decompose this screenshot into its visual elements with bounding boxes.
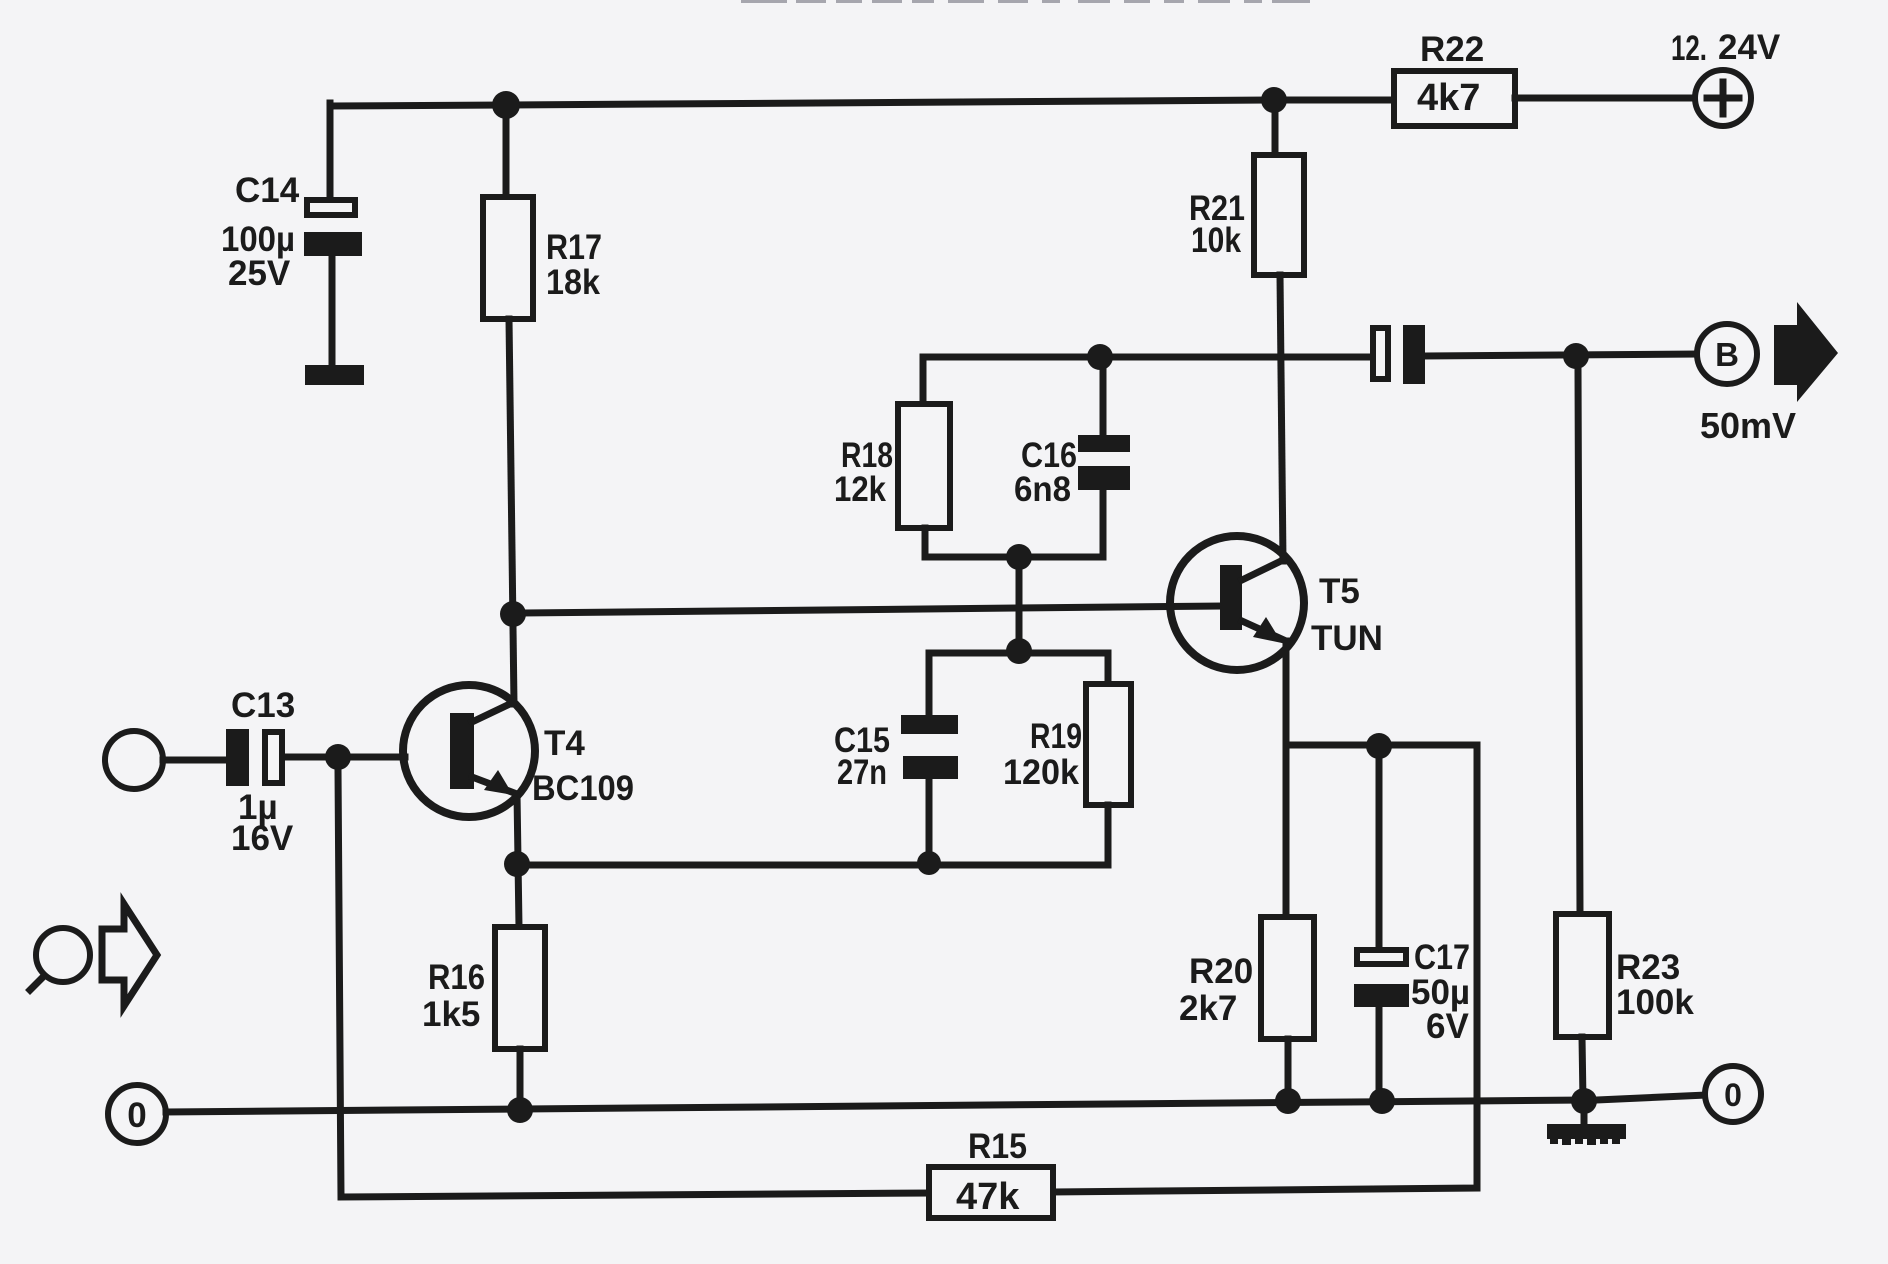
input terminal (circle) bbox=[105, 731, 163, 789]
resistor R18 bbox=[834, 404, 950, 528]
transistor T4 bbox=[403, 685, 634, 817]
wire top supply rail from C14 corner to R22 bbox=[330, 100, 1394, 106]
wire cap to terminal B bbox=[1425, 354, 1697, 356]
svg-text:R22: R22 bbox=[1420, 30, 1484, 69]
wire rail to terminal 0 right bbox=[1597, 1095, 1706, 1100]
node C17 branch junction bbox=[1366, 733, 1392, 759]
wire R17 bottom to T4 collector bbox=[509, 319, 514, 704]
node C17/rail junction bbox=[1369, 1088, 1395, 1114]
capacitor C15 bbox=[834, 715, 958, 792]
svg-text:6n8: 6n8 bbox=[1014, 470, 1071, 509]
wire output line from R18 corner to coupling cap bbox=[923, 357, 1370, 404]
wire R19 bottom lead bbox=[1105, 805, 1112, 865]
capacitor C14 bbox=[221, 171, 364, 385]
svg-text:4k7: 4k7 bbox=[1417, 77, 1480, 119]
svg-text:10k: 10k bbox=[1191, 221, 1241, 260]
node C15/emitter junction bbox=[917, 851, 941, 875]
svg-text:R17: R17 bbox=[546, 228, 602, 267]
node output/C16 junction bbox=[1087, 344, 1113, 370]
resistor R15 bbox=[929, 1127, 1053, 1218]
supply terminal + bbox=[1671, 28, 1781, 126]
svg-text:27n: 27n bbox=[837, 753, 887, 792]
wire R23 bottom lead bbox=[1582, 1037, 1583, 1101]
svg-text:12.: 12. bbox=[1671, 29, 1707, 68]
wire R16 bottom lead bbox=[517, 1049, 524, 1110]
wire divider connector bbox=[1016, 557, 1023, 651]
node R20/rail junction bbox=[1275, 1088, 1301, 1114]
wire C15/R19 top wire bbox=[929, 653, 1108, 715]
wire T4 emitter down to R16 bbox=[517, 794, 519, 927]
svg-text:C13: C13 bbox=[231, 686, 295, 725]
wire feedback drop to R15 bbox=[338, 769, 929, 1197]
wire R23 top lead bbox=[1578, 369, 1580, 914]
node input/feedback junction bbox=[325, 744, 351, 770]
node R23/rail junction bbox=[1571, 1088, 1597, 1114]
wire R15 right wire and riser bbox=[1053, 745, 1477, 1192]
svg-text:R19: R19 bbox=[1030, 717, 1082, 756]
svg-text:6V: 6V bbox=[1426, 1007, 1469, 1046]
svg-text:T4: T4 bbox=[544, 724, 585, 763]
svg-text:18k: 18k bbox=[546, 263, 600, 302]
svg-text:R20: R20 bbox=[1189, 952, 1253, 991]
svg-text:25V: 25V bbox=[228, 254, 291, 293]
wire C14 drop from rail bbox=[327, 103, 334, 197]
wire R20 bottom lead bbox=[1285, 1039, 1292, 1101]
resistor R22 bbox=[1394, 30, 1515, 126]
svg-text:TUN: TUN bbox=[1311, 619, 1383, 658]
node R23 top junction bbox=[1563, 343, 1589, 369]
wire T5 base line bbox=[524, 606, 1220, 613]
resistor R16 bbox=[422, 927, 545, 1049]
svg-text:0: 0 bbox=[1724, 1077, 1742, 1113]
wire ground rail bbox=[166, 1100, 1584, 1112]
svg-text:B: B bbox=[1715, 336, 1739, 373]
resistor R19 bbox=[1003, 684, 1131, 805]
wire T5 collector lead bbox=[1280, 275, 1283, 561]
output arrow bbox=[1774, 302, 1838, 402]
node T4 emitter bbox=[504, 851, 530, 877]
svg-text:12k: 12k bbox=[834, 470, 886, 509]
svg-text:50mV: 50mV bbox=[1700, 405, 1796, 446]
svg-text:2k7: 2k7 bbox=[1179, 989, 1237, 1028]
capacitor C17 bbox=[1354, 759, 1470, 1101]
ground symbol bbox=[1547, 1112, 1626, 1145]
svg-text:24V: 24V bbox=[1718, 28, 1781, 67]
wire emitter branch to R15 riser bbox=[1286, 742, 1477, 749]
wire C13 to T4 base bbox=[285, 754, 405, 761]
terminal 0 right bbox=[1705, 1066, 1761, 1122]
resistor R20 bbox=[1179, 917, 1314, 1039]
node T4 collector / T5 base junction bbox=[500, 601, 526, 627]
svg-text:BC109: BC109 bbox=[532, 769, 634, 808]
node R16/rail junction bbox=[507, 1097, 533, 1123]
wire R17 top lead bbox=[503, 106, 510, 197]
wire R21 top lead bbox=[1272, 113, 1279, 155]
wire C15 bottom lead bbox=[926, 779, 933, 864]
input source symbol bbox=[30, 928, 90, 990]
input arrow bbox=[102, 904, 157, 1006]
capacitor C16 bbox=[1014, 357, 1130, 509]
wire T5 emitter down to R20 bbox=[1283, 641, 1290, 917]
node rail/R17 junction bbox=[492, 91, 520, 119]
svg-text:120k: 120k bbox=[1003, 753, 1080, 792]
resistor R17 bbox=[483, 197, 602, 319]
wire R22 to supply terminal bbox=[1515, 95, 1696, 102]
transistor T5 bbox=[1170, 536, 1383, 670]
svg-text:100k: 100k bbox=[1616, 983, 1694, 1022]
terminal 0 left bbox=[108, 1085, 166, 1143]
svg-text:C17: C17 bbox=[1414, 938, 1470, 977]
svg-text:R16: R16 bbox=[428, 958, 485, 997]
resistor R23 bbox=[1556, 914, 1694, 1037]
node rail/R21 junction bbox=[1261, 87, 1287, 113]
capacitor C13 bbox=[226, 686, 295, 858]
wire T4 emitter line to C15/R19 bbox=[517, 862, 1108, 869]
resistor R21 bbox=[1189, 155, 1304, 275]
svg-text:1k5: 1k5 bbox=[422, 995, 480, 1034]
wire R18/C16 bottom wire bbox=[925, 490, 1103, 557]
svg-text:T5: T5 bbox=[1319, 572, 1360, 611]
coupling capacitor at output bbox=[1373, 325, 1425, 384]
svg-text:R15: R15 bbox=[968, 1127, 1027, 1166]
svg-text:16V: 16V bbox=[231, 819, 294, 858]
svg-text:0: 0 bbox=[127, 1096, 146, 1135]
node C15/R19 top junction bbox=[1006, 638, 1032, 664]
terminal B output bbox=[1697, 324, 1796, 446]
svg-text:47k: 47k bbox=[956, 1176, 1020, 1218]
node R18/C16 bottom junction bbox=[1006, 544, 1032, 570]
cropped title text fragments at top edge bbox=[741, 0, 1310, 3]
wire input to C13 bbox=[163, 757, 226, 764]
svg-text:C14: C14 bbox=[235, 171, 300, 210]
svg-text:R23: R23 bbox=[1616, 948, 1680, 987]
